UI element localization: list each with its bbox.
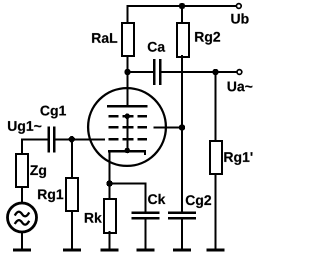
label Rg2 [195,32,204,42]
node cathode junction [106,180,112,186]
wire Ca to Ua~ terminal [161,71,237,73]
ground Ck [136,248,154,251]
label Zg [30,165,38,175]
wire Rg1' top lead [215,72,217,141]
ground Rg1 [63,248,81,251]
wire Rg2 bottom to Cg2 [181,55,183,212]
label Ck [148,194,157,204]
tube cathode right tick [144,151,146,155]
wire anode lead into tube [127,72,129,106]
label Cg1 [40,106,49,116]
resistor Rk [104,199,116,233]
wire cathode lead [109,150,111,185]
source G1 circle [8,203,37,232]
tube grid g3 (suppressor) [109,115,148,118]
wire input corner [22,139,48,154]
wire Rk top lead [109,184,111,200]
wire Zg bottom lead [21,186,23,203]
node screen grid junction [179,124,185,130]
capacitor Ca [153,59,156,85]
tube grid g2 (screen) [109,126,148,129]
wire Rg1 top lead [71,139,73,178]
terminal Ub [236,4,241,9]
capacitor Ck [131,211,159,214]
wire top supply rail [128,5,237,7]
resistor RaL [122,23,134,56]
label Rk [85,213,94,223]
ground Rk [101,248,119,251]
node g3 tie dot [124,113,130,119]
node supply junction [179,3,185,9]
node anode junction [124,69,130,75]
wire anode to Ca [128,71,154,73]
wire Ck bottom lead [144,219,146,249]
label RaL [92,33,101,43]
wire Rg1' bottom lead [215,173,217,249]
ground Cg2 [173,248,191,251]
resistor Zg [16,154,28,187]
ground source [13,248,31,251]
wire g2 lead to junction [154,126,184,128]
resistor Rg2 [177,23,189,57]
wire cathode to Ck [110,183,146,185]
wire source bottom lead [21,232,23,250]
wire Rk bottom lead [109,231,111,249]
wire Cg2 bottom lead [181,219,183,249]
resistor Rg1' [210,141,222,174]
label Ug1~ [8,121,16,131]
wire Rg2 top lead [181,5,183,23]
wire RaL top lead [127,5,129,23]
wire Ck top lead [144,183,146,213]
wire g3-cathode internal tie [126,116,128,151]
terminal Ua~ [237,70,242,75]
label Cg2 [186,195,195,205]
capacitor Cg2 [168,211,196,214]
source G1 tilde upper [15,212,29,217]
tube U1 envelope [88,88,166,166]
node output junction [212,69,218,75]
label Ca [148,42,157,52]
tube cathode bar [108,150,146,153]
label Rg1 [38,189,47,199]
wire Cg1 to grid g1 [56,138,106,140]
capacitor Cg1 [47,126,50,152]
label Ua~ [228,82,236,92]
tube anode plate bar [107,105,147,108]
source G1 tilde lower [15,220,29,225]
label Rg1' [224,152,233,162]
node cathode tie dot [124,148,130,154]
ground Rg1' [207,248,225,251]
resistor Rg1 [66,178,78,211]
wire RaL bottom lead [127,55,129,73]
node grid junction [69,136,75,142]
label Ub [231,14,239,24]
wire Rg1 bottom lead [71,210,73,249]
tube grid g1 (control) [109,138,148,141]
